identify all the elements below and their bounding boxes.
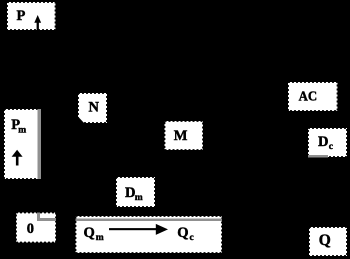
svg-text:c: c [329,142,333,152]
svg-text:m: m [96,233,104,243]
svg-text:c: c [190,233,194,243]
svg-text:m: m [18,125,26,135]
svg-text:M: M [174,128,188,144]
svg-text:D: D [318,134,328,150]
svg-text:N: N [89,99,100,115]
svg-text:P: P [17,8,26,24]
svg-text:Q: Q [84,225,95,241]
svg-text:Q: Q [319,232,331,249]
svg-text:m: m [135,193,143,203]
svg-text:Q: Q [177,225,188,241]
svg-text:AC: AC [299,89,318,104]
svg-text:0: 0 [27,221,34,237]
